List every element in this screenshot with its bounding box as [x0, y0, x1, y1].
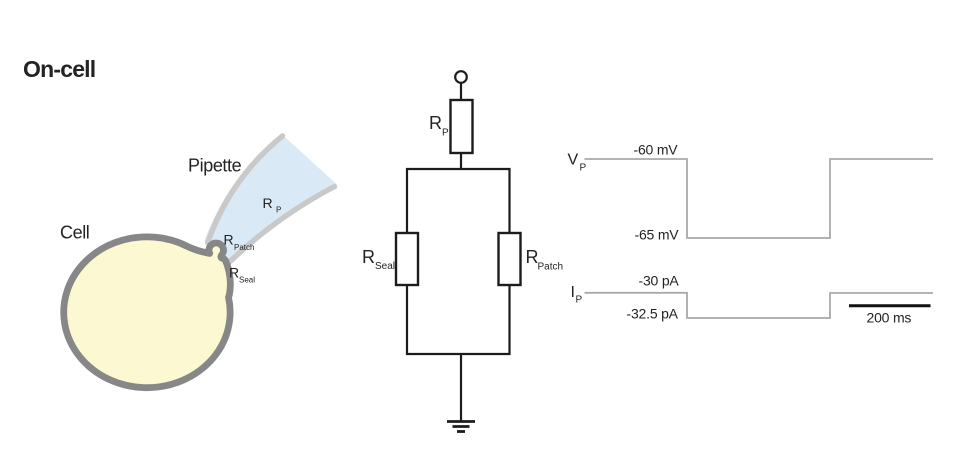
- svg-text:Cell: Cell: [60, 223, 89, 243]
- Ip trace: [585, 293, 934, 318]
- wire terminal to Rp: [460, 83, 462, 100]
- svg-text:P: P: [580, 162, 587, 173]
- svg-text:-32.5 pA: -32.5 pA: [627, 305, 679, 321]
- svg-text:R: R: [224, 232, 234, 248]
- svg-text:P: P: [442, 128, 449, 139]
- cell body with membrane patch dome and seal bulge: [64, 237, 231, 388]
- svg-text:-65 mV: -65 mV: [635, 227, 680, 243]
- svg-text:R: R: [429, 113, 442, 133]
- pipette (lumen fill): [205, 134, 337, 263]
- svg-text:R: R: [263, 195, 273, 211]
- svg-text:200 ms: 200 ms: [867, 309, 912, 325]
- resistor Rseal: [396, 233, 418, 285]
- ground: [447, 422, 475, 432]
- svg-text:V: V: [568, 152, 579, 169]
- svg-text:R: R: [229, 265, 239, 281]
- pipette wall upper: [208, 136, 283, 243]
- svg-text:P: P: [576, 294, 583, 305]
- svg-text:Seal: Seal: [375, 261, 395, 272]
- scale bar 200 ms: [849, 304, 931, 307]
- wire top rail: [406, 168, 511, 170]
- wire Rp to top rail: [460, 153, 462, 170]
- wire right branch upper: [508, 168, 510, 233]
- Vp trace: [585, 159, 934, 238]
- svg-text:P: P: [276, 206, 281, 215]
- wire to ground: [460, 354, 462, 421]
- wire left branch upper: [406, 168, 408, 233]
- pipette wall lower: [230, 187, 335, 263]
- svg-text:Patch: Patch: [538, 262, 564, 273]
- svg-text:Pipette: Pipette: [188, 156, 242, 176]
- wire right branch lower: [508, 285, 510, 355]
- svg-text:-60 mV: -60 mV: [634, 142, 679, 158]
- wire left branch lower: [406, 285, 408, 355]
- svg-text:I: I: [571, 284, 575, 301]
- svg-text:Seal: Seal: [239, 276, 255, 285]
- svg-text:-30 pA: -30 pA: [639, 272, 680, 288]
- svg-text:On-cell: On-cell: [23, 56, 95, 82]
- svg-text:R: R: [362, 247, 375, 267]
- svg-text:Patch: Patch: [234, 243, 254, 252]
- resistor Rpatch: [499, 233, 521, 285]
- wire bottom rail: [406, 353, 511, 355]
- node terminal circle: [455, 71, 467, 83]
- resistor Rp: [451, 100, 473, 153]
